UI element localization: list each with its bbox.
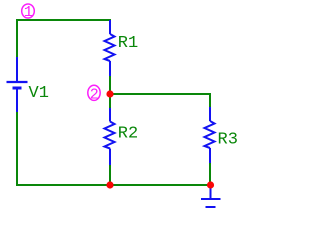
wire left vertical upper net1 [16,19,18,57]
resistor R3 [205,107,215,163]
wire bottom horizontal ground net [16,184,210,186]
node label 1 [22,4,35,21]
resistor R2 [105,108,115,165]
svg-text:1: 1 [24,4,33,21]
svg-text:R2: R2 [118,125,138,144]
svg-text:2: 2 [90,87,99,104]
junction R2 bottom [106,181,113,188]
node label 2 [88,85,100,103]
wire top horizontal net1 [16,19,111,21]
svg-text:R3: R3 [218,130,238,149]
ground [201,186,221,207]
svg-text:R1: R1 [118,34,138,53]
wire R2 bottom to ground net [109,165,111,185]
svg-text:V1: V1 [29,84,49,103]
wire left vertical lower (V1 minus to bottom) [16,112,18,186]
wire right vertical upper (to R3 top) [209,93,211,107]
battery V1 [7,57,28,112]
wire node2 vertical (R1 bottom to R2 top) [109,76,111,108]
junction node 2 [106,90,113,97]
wire node2 horizontal to R3 [110,93,211,95]
wire R3 bottom to ground net [209,163,211,185]
resistor R1 [105,20,115,76]
junction ground [207,181,214,188]
